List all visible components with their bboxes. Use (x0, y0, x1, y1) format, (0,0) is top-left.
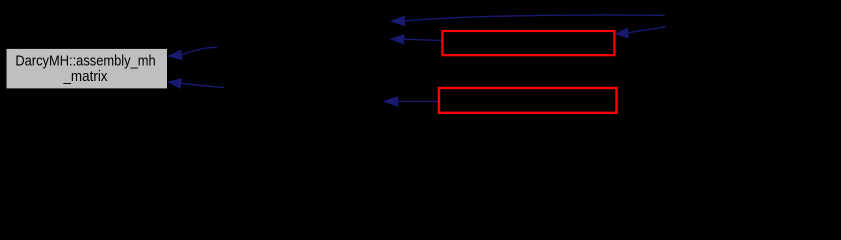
edge: upper-middle caller -> DarcyMH::assembly_mh_matrix (168, 47, 217, 60)
svg-text:_matrix: _matrix (63, 68, 108, 85)
edge: truncated caller (red box 1) -> upper-middle caller (390, 34, 442, 44)
edge: far-right caller -> truncated caller (red box 1) (615, 26, 666, 38)
edge: lower-middle caller -> DarcyMH::assembly_mh_matrix (168, 79, 224, 89)
node: truncated caller red box 2 (439, 88, 617, 113)
svg-text:DarcyMH::assembly_mh: DarcyMH::assembly_mh (15, 53, 155, 70)
edge: truncated caller (red box 2) -> lower-middle caller (383, 96, 439, 106)
node: DarcyMH::assembly_mh_matrix (current function, grey box) (6, 48, 168, 89)
doxygen caller graph rendered on black background (0, 0, 841, 127)
node: truncated caller red box 1 (442, 31, 614, 55)
edge: far-right caller -> upper-middle caller (long top curve) (391, 15, 665, 26)
